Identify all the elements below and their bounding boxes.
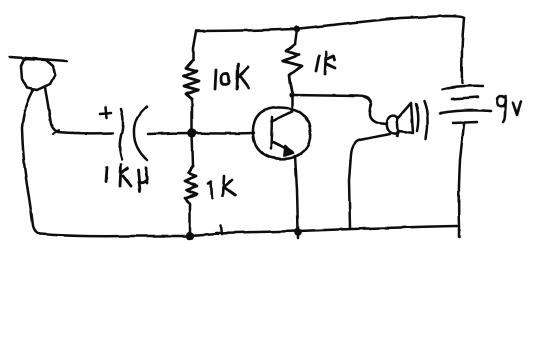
- wire R1 top to rail: [193, 31, 196, 60]
- speaker SP1 sound wave arc 2: [424, 101, 428, 139]
- capacitor C1 plus sign: [100, 113, 111, 114]
- wire corner tick at capacitor bend: [53, 130, 59, 134]
- microphone MIC1 top bar: [10, 57, 67, 61]
- wire R1 bottom to node A: [191, 99, 194, 133]
- capacitor C1 label 1kµ: [106, 165, 147, 191]
- transistor Q1 emitter arrowhead: [284, 146, 294, 156]
- wire capacitor to base node A: [148, 133, 192, 134]
- node C junction blob (collector / R2 / speaker wire): [289, 92, 294, 97]
- battery B1 plate 1 (long): [443, 86, 483, 89]
- node B junction dot (rail / R2 top): [294, 26, 300, 32]
- wire R2 bottom to collector node C: [291, 93, 294, 111]
- wire R3 top to node A: [192, 133, 193, 166]
- wire bottom rail left section: [40, 234, 190, 236]
- resistor R1 10K body: [183, 60, 199, 99]
- speaker SP1 sound wave arc 1: [416, 104, 418, 131]
- wire top rail: [196, 16, 464, 31]
- microphone MIC1 capsule: [21, 59, 55, 90]
- wire speaker bottom down to rail: [349, 134, 390, 228]
- wire mic right terminal down then right to capacitor: [45, 87, 113, 133]
- battery B1 plate 4 (short): [453, 122, 477, 123]
- resistor R3 label 1k: [208, 176, 235, 198]
- transistor Q1 collector stroke: [273, 111, 292, 121]
- wire mic left terminal down to bottom rail: [22, 90, 40, 234]
- transistor Q1 emitter stroke: [273, 142, 293, 152]
- battery B1 plate 2 (short): [452, 97, 478, 99]
- wire bottom rail right section: [190, 225, 457, 236]
- wire node A to transistor base: [192, 132, 254, 135]
- battery B1 label 9v: [497, 96, 521, 122]
- wire rail right side down to battery: [462, 18, 464, 83]
- resistor R3 1k body: [185, 166, 197, 204]
- speaker SP1 cone: [397, 103, 413, 136]
- battery B1 plate 3 (long): [440, 110, 491, 113]
- node E junction dot on bottom rail: [294, 228, 302, 236]
- wire R2 top to rail node B: [295, 29, 297, 44]
- wire emitter down to bottom rail: [295, 156, 298, 238]
- node A junction dot: [188, 129, 197, 138]
- capacitor C1 left plate: [120, 109, 123, 160]
- resistor R2 label 1k: [316, 52, 335, 74]
- wire R3 bottom to rail: [189, 204, 192, 236]
- transistor Q1 base bar: [271, 117, 272, 149]
- transistor Q1 body circle: [253, 108, 310, 159]
- wire battery bottom down to rail: [459, 124, 464, 237]
- capacitor C1 right plate: [134, 107, 147, 160]
- node D junction dot (rail / R3): [186, 232, 194, 240]
- speaker SP1 driver box: [387, 116, 398, 133]
- resistor R2 1k body: [283, 44, 302, 93]
- wire collector node C to speaker: [292, 95, 386, 124]
- resistor R1 label 10K: [215, 64, 249, 89]
